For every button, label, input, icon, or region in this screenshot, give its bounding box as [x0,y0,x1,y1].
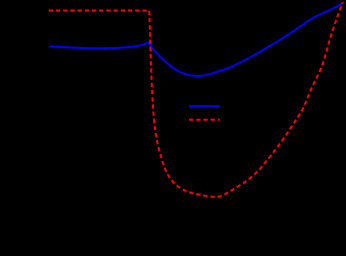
red dashed data curve [49,2,343,197]
legend sample: blue solid [189,105,220,107]
blue solid data curve [49,3,342,76]
legend sample: red dashed [189,119,220,121]
